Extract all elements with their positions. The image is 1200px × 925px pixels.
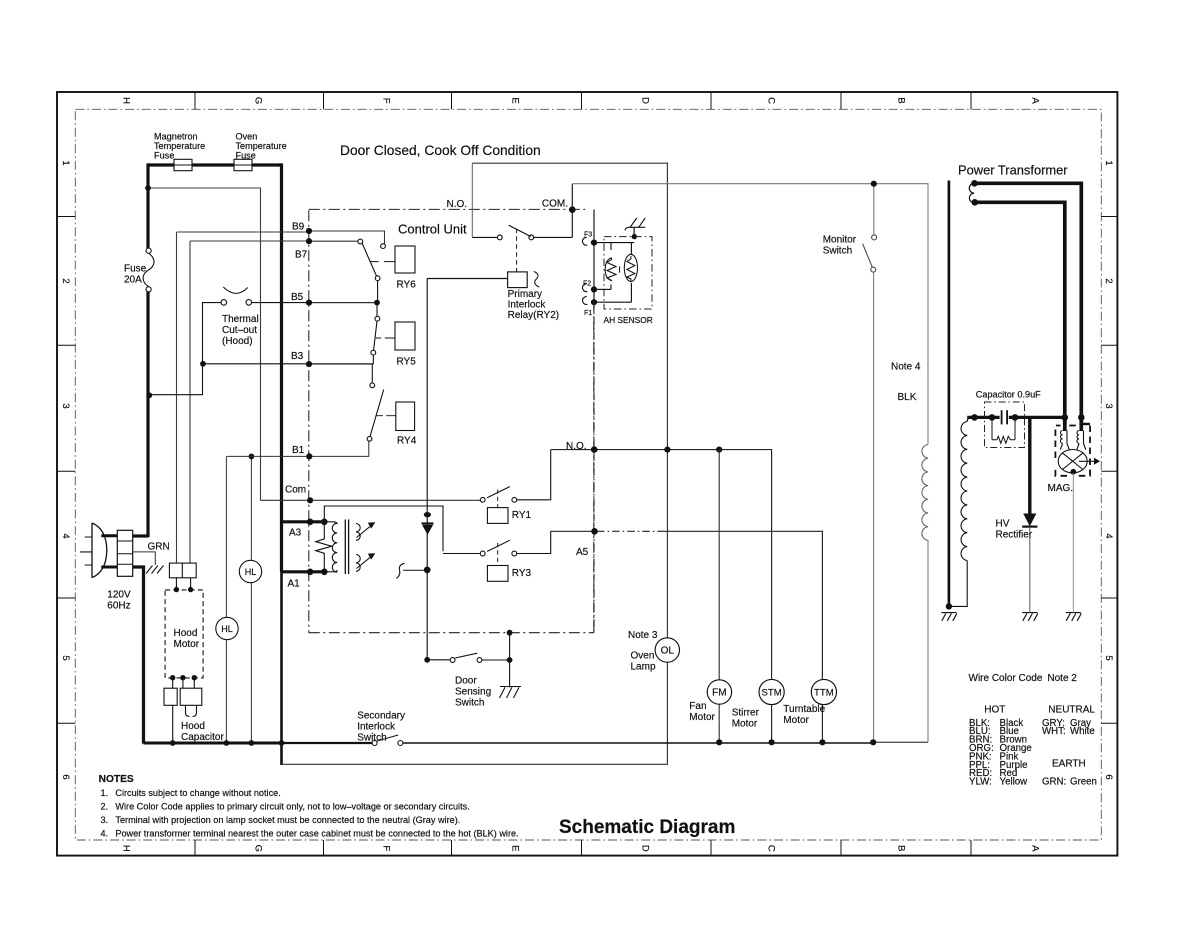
- svg-text:FM: FM: [712, 688, 726, 699]
- svg-text:F: F: [381, 845, 392, 851]
- svg-text:4.: 4.: [101, 829, 109, 839]
- svg-text:RY4: RY4: [397, 436, 417, 447]
- svg-text:B: B: [896, 845, 907, 851]
- svg-text:Wire Color Code applies to pri: Wire Color Code applies to primary circu…: [115, 802, 469, 812]
- svg-text:HV: HV: [996, 519, 1010, 530]
- svg-text:1.: 1.: [101, 788, 109, 798]
- svg-text:RY3: RY3: [512, 568, 532, 579]
- svg-text:HL: HL: [221, 624, 233, 634]
- svg-text:B1: B1: [292, 445, 305, 456]
- svg-text:RY5: RY5: [397, 357, 417, 368]
- svg-text:6: 6: [60, 774, 71, 779]
- svg-text:Thermal: Thermal: [222, 314, 259, 325]
- svg-text:Temperature: Temperature: [154, 141, 205, 151]
- svg-text:Yellow: Yellow: [1000, 777, 1029, 788]
- svg-text:B3: B3: [291, 351, 304, 362]
- svg-text:WHT:: WHT:: [1042, 726, 1066, 737]
- svg-text:GRN: GRN: [148, 542, 170, 553]
- svg-text:A5: A5: [576, 547, 589, 558]
- svg-text:F1: F1: [584, 310, 592, 317]
- svg-text:D: D: [640, 97, 651, 104]
- svg-text:HL: HL: [245, 567, 257, 577]
- svg-text:BLK: BLK: [898, 392, 917, 403]
- svg-text:Hood: Hood: [174, 628, 198, 639]
- svg-text:Capacitor: Capacitor: [181, 732, 224, 743]
- svg-text:N.O.: N.O.: [566, 441, 587, 452]
- svg-text:20A: 20A: [124, 275, 142, 286]
- svg-text:Secondary: Secondary: [357, 711, 405, 722]
- svg-text:Control Unit: Control Unit: [398, 222, 467, 237]
- svg-text:A1: A1: [288, 579, 301, 590]
- svg-text:Interlock: Interlock: [357, 722, 396, 733]
- svg-text:TTM: TTM: [814, 688, 834, 699]
- svg-text:Oven: Oven: [236, 132, 258, 142]
- svg-text:H: H: [121, 845, 132, 852]
- svg-text:Lamp: Lamp: [631, 662, 656, 673]
- svg-text:Magnetron: Magnetron: [154, 132, 198, 142]
- svg-text:NOTES: NOTES: [99, 774, 134, 785]
- svg-text:Temperature: Temperature: [236, 141, 287, 151]
- svg-text:E: E: [510, 845, 521, 851]
- svg-text:2: 2: [60, 278, 71, 283]
- svg-text:Interlock: Interlock: [508, 300, 547, 311]
- svg-text:C: C: [766, 845, 777, 852]
- svg-text:Fuse: Fuse: [154, 151, 174, 161]
- svg-text:Motor: Motor: [732, 719, 758, 730]
- svg-text:Terminal with projection on la: Terminal with projection on lamp socket …: [115, 815, 460, 825]
- svg-text:Power Transformer: Power Transformer: [958, 163, 1068, 178]
- svg-text:Switch: Switch: [357, 733, 386, 744]
- svg-text:B: B: [896, 97, 907, 103]
- svg-text:2.: 2.: [101, 802, 109, 812]
- svg-text:GRN:: GRN:: [1042, 777, 1066, 788]
- svg-text:A3: A3: [289, 528, 302, 539]
- svg-text:Oven: Oven: [631, 651, 655, 662]
- svg-text:Sensing: Sensing: [455, 687, 491, 698]
- svg-text:D: D: [640, 845, 651, 852]
- svg-text:G: G: [253, 845, 264, 852]
- svg-text:B5: B5: [291, 292, 304, 303]
- svg-text:Relay(RY2): Relay(RY2): [508, 310, 559, 321]
- svg-text:COM.: COM.: [542, 199, 568, 210]
- svg-text:Switch: Switch: [455, 698, 484, 709]
- svg-text:F2: F2: [583, 280, 591, 287]
- svg-text:Note 3: Note 3: [628, 630, 658, 641]
- svg-text:F3: F3: [584, 232, 592, 239]
- svg-text:4: 4: [60, 533, 71, 538]
- svg-text:RY6: RY6: [397, 280, 417, 291]
- svg-text:Motor: Motor: [689, 712, 715, 723]
- svg-text:Monitor: Monitor: [823, 235, 857, 246]
- svg-text:Com: Com: [285, 485, 306, 496]
- svg-text:(Hood): (Hood): [222, 336, 253, 347]
- svg-text:G: G: [253, 97, 264, 104]
- svg-text:3.: 3.: [101, 815, 109, 825]
- svg-text:Schematic Diagram: Schematic Diagram: [559, 817, 735, 838]
- svg-text:2: 2: [1103, 278, 1114, 283]
- svg-text:1: 1: [60, 160, 71, 165]
- svg-text:Door Closed, Cook Off Conditio: Door Closed, Cook Off Condition: [340, 143, 541, 158]
- svg-text:MAG.: MAG.: [1048, 483, 1074, 494]
- svg-text:4: 4: [1103, 533, 1114, 538]
- svg-text:EARTH: EARTH: [1052, 759, 1086, 770]
- svg-text:B7: B7: [295, 250, 308, 261]
- svg-text:F: F: [381, 98, 392, 104]
- svg-text:60Hz: 60Hz: [107, 601, 130, 612]
- svg-text:Rectifier: Rectifier: [996, 530, 1033, 541]
- svg-text:Turntable: Turntable: [783, 704, 825, 715]
- svg-text:A: A: [1030, 845, 1041, 852]
- svg-text:5: 5: [1103, 655, 1114, 660]
- svg-text:Cut–out: Cut–out: [222, 325, 257, 336]
- svg-text:Switch: Switch: [823, 246, 852, 257]
- svg-text:E: E: [510, 97, 521, 103]
- svg-text:Hood: Hood: [181, 721, 205, 732]
- svg-text:A: A: [1030, 97, 1041, 104]
- svg-text:120V: 120V: [107, 590, 131, 601]
- svg-text:1: 1: [1103, 160, 1114, 165]
- svg-text:Note 2: Note 2: [1047, 673, 1077, 684]
- svg-text:White: White: [1070, 726, 1095, 737]
- svg-text:Green: Green: [1070, 777, 1097, 788]
- svg-text:YLW:: YLW:: [969, 777, 992, 788]
- svg-text:Fuse: Fuse: [124, 264, 147, 275]
- svg-text:Power transformer terminal nea: Power transformer terminal nearest the o…: [115, 829, 518, 839]
- svg-text:HOT: HOT: [984, 705, 1005, 716]
- svg-text:N.O.: N.O.: [447, 199, 468, 210]
- svg-text:6: 6: [1103, 774, 1114, 779]
- svg-text:RY1: RY1: [512, 510, 532, 521]
- svg-text:Capacitor 0.9uF: Capacitor 0.9uF: [976, 390, 1041, 400]
- svg-text:Wire Color Code: Wire Color Code: [969, 673, 1043, 684]
- svg-text:3: 3: [1103, 403, 1114, 408]
- svg-text:Circuits subject to change wit: Circuits subject to change without notic…: [115, 788, 280, 798]
- svg-text:Motor: Motor: [783, 715, 809, 726]
- svg-text:NEUTRAL: NEUTRAL: [1048, 705, 1095, 716]
- svg-text:AH SENSOR: AH SENSOR: [604, 315, 653, 325]
- svg-text:Fuse: Fuse: [236, 151, 256, 161]
- svg-text:B9: B9: [292, 222, 305, 233]
- svg-text:Primary: Primary: [508, 289, 542, 300]
- svg-text:OL: OL: [661, 646, 675, 657]
- svg-text:5: 5: [60, 655, 71, 660]
- svg-text:Motor: Motor: [174, 639, 200, 650]
- svg-text:H: H: [121, 97, 132, 104]
- svg-text:Door: Door: [455, 676, 477, 687]
- svg-text:3: 3: [60, 403, 71, 408]
- svg-text:STM: STM: [761, 688, 781, 699]
- svg-text:Note 4: Note 4: [891, 362, 921, 373]
- svg-text:Fan: Fan: [689, 701, 706, 712]
- svg-text:C: C: [766, 97, 777, 104]
- svg-text:Stirrer: Stirrer: [732, 708, 760, 719]
